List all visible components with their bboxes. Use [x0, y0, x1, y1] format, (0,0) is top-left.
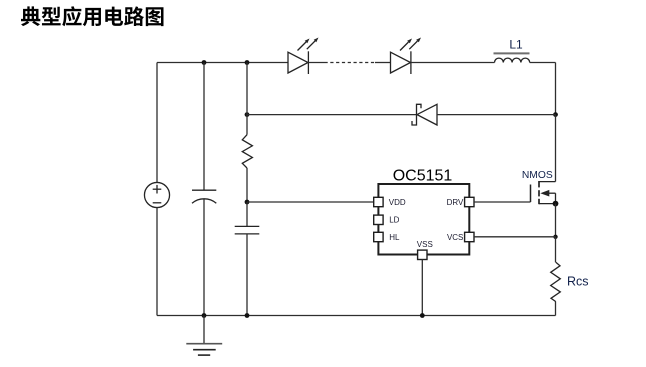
wire C1 bottom — [203, 200, 205, 316]
wire R1 bottom to VDD node — [246, 168, 248, 202]
svg-text:Rcs: Rcs — [567, 275, 589, 289]
wire VDD node to VDD pin — [247, 201, 374, 203]
svg-text:DRV: DRV — [447, 198, 464, 207]
svg-text:L1: L1 — [509, 37, 523, 51]
node junction C2 bottom — [245, 313, 250, 318]
wire C2 bottom — [246, 234, 248, 316]
pin VDD — [374, 197, 383, 206]
wire R1 top — [246, 63, 248, 135]
node junction VSS bottom — [420, 313, 425, 318]
node junction VDD feed — [245, 200, 250, 205]
wire Rcs to bottom rail — [555, 302, 557, 316]
wire dashed LED string continuation — [325, 62, 376, 64]
wire right rail down to freewheel node — [555, 63, 557, 115]
wire VCS pin to sense node — [474, 236, 556, 238]
svg-text:NMOS: NMOS — [522, 170, 553, 181]
op-amp/controller U1 OC5151 body — [378, 184, 469, 255]
diode D3 freewheeling (Schottky) — [412, 104, 437, 125]
wire diode row left — [247, 114, 417, 116]
wire VSS pin down — [421, 260, 423, 316]
node junction right rail / diode row — [553, 112, 558, 117]
svg-text:OC5151: OC5151 — [393, 167, 453, 184]
node junction top rail at R1 — [245, 60, 250, 65]
svg-text:VSS: VSS — [417, 240, 433, 249]
wire VDD node down to C2 — [246, 202, 248, 226]
wire LED2 cathode to L1 — [411, 62, 495, 64]
resistor Rcs — [551, 262, 561, 301]
wire LED2 anode stub — [375, 62, 390, 64]
ground — [186, 316, 222, 356]
LED D1 (first LED with light arrows) — [288, 38, 319, 75]
wire source to VCS row — [555, 204, 557, 237]
transistor Q1 NMOS — [531, 181, 556, 204]
svg-text:HL: HL — [389, 233, 400, 242]
wire left rail top — [156, 63, 158, 183]
resistor R1 — [242, 135, 252, 168]
inductor L1 — [494, 53, 530, 62]
wire L1 to top-right corner — [530, 62, 556, 64]
title 典型应用电路图 — [21, 6, 164, 26]
svg-text:VCS: VCS — [447, 233, 463, 242]
wire right rail to NMOS drain — [555, 115, 557, 182]
wire C1 top — [203, 63, 205, 191]
node junction top rail at C1 — [202, 60, 207, 65]
wire diode row right — [437, 114, 556, 116]
wire sense node to Rcs — [555, 237, 557, 262]
capacitor C2 — [235, 226, 260, 234]
LED D2 (second LED with light arrows) — [391, 38, 422, 75]
pin VSS — [418, 250, 427, 259]
pin DRV — [465, 197, 474, 206]
capacitor C1 (input electrolytic) — [192, 190, 216, 203]
node junction NMOS source — [553, 201, 559, 207]
wire LED1 cathode stub — [308, 62, 324, 64]
wire left rail bottom — [156, 208, 158, 316]
pin LD — [374, 215, 383, 224]
pin HL — [374, 232, 383, 241]
wire bottom rail — [157, 315, 556, 317]
wire DRV to gate — [474, 201, 531, 203]
voltage source V1 — [144, 182, 169, 207]
svg-text:VDD: VDD — [389, 198, 406, 207]
node junction R1 top / diode row — [245, 112, 250, 117]
wire top rail left (Vin+ to LED1 anode) — [157, 62, 288, 64]
svg-text:LD: LD — [389, 216, 399, 225]
node junction VCS row — [553, 235, 557, 239]
pin VCS — [465, 232, 474, 241]
node junction ground tap — [202, 313, 207, 318]
